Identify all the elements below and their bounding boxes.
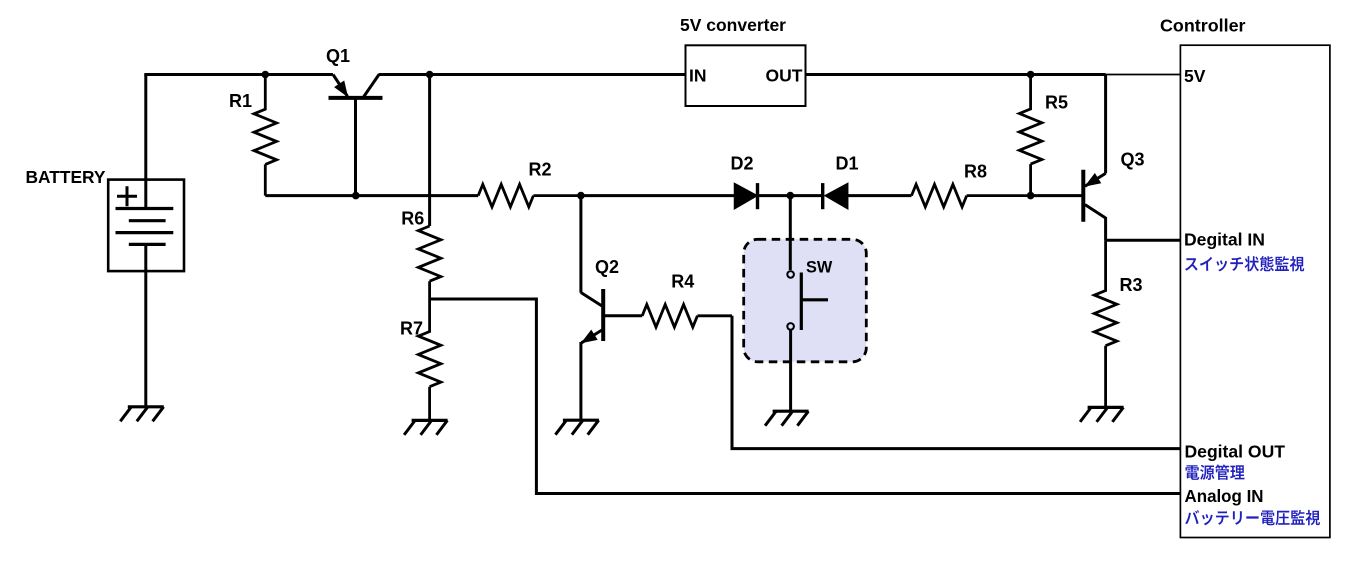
svg-text:R5: R5 (1045, 93, 1068, 113)
Controller box (1180, 45, 1330, 537)
node (R5 top) (1027, 71, 1035, 79)
node (top rail / divider drop) (426, 71, 434, 79)
svg-text:Degital OUT: Degital OUT (1185, 442, 1286, 462)
wire Q2 base to R4 (603, 314, 642, 317)
ground (SW) (765, 411, 809, 426)
wire top rail middle (Q1 collector to converter IN) (379, 73, 686, 76)
net note 電源管理 (1186, 465, 1245, 480)
wire D2 to D1 (758, 194, 823, 197)
wire battery top riser (144, 75, 147, 181)
wire Degital IN lead (1106, 239, 1181, 242)
net note スイッチ状態監視 (1185, 256, 1304, 271)
svg-text:R3: R3 (1120, 275, 1143, 295)
resistor R5 (1019, 75, 1042, 196)
transistor Q2 (581, 196, 603, 421)
ground (Q2) (555, 420, 599, 435)
node (Q1 base / base rail) (352, 192, 360, 200)
svg-text:5V converter: 5V converter (680, 15, 786, 35)
resistor R7 (418, 299, 441, 420)
svg-text:BATTERY: BATTERY (26, 167, 106, 187)
resistor R3 (1094, 240, 1117, 407)
resistor R6 (418, 226, 441, 299)
svg-text:IN: IN (689, 66, 707, 86)
svg-text:Q1: Q1 (326, 46, 350, 66)
ground (R7) (404, 420, 448, 435)
svg-text:Degital IN: Degital IN (1184, 230, 1265, 250)
node A (R1 top) (262, 71, 270, 79)
wire top rail left (battery to Q1 emitter) (144, 73, 333, 76)
battery BT1 (108, 180, 184, 272)
wire base rail y=195.6 from R1 to R2 (265, 194, 478, 197)
svg-text:R8: R8 (964, 162, 987, 182)
wire rail to D2 (581, 194, 735, 197)
svg-text:R1: R1 (229, 91, 252, 111)
svg-text:R2: R2 (529, 160, 552, 180)
wire divider drop (crosses base rail, no junction) (428, 75, 431, 227)
5V converter U1 (686, 45, 806, 106)
switch SW enclosure (744, 239, 867, 361)
resistor R2 (478, 184, 581, 207)
resistor R1 (254, 75, 277, 196)
svg-text:Q3: Q3 (1121, 150, 1145, 170)
svg-text:OUT: OUT (766, 66, 803, 86)
diode D1 (823, 183, 848, 209)
transistor Q1 (329, 75, 383, 196)
resistor R8 (912, 184, 1031, 207)
ground (battery) (120, 407, 164, 422)
wire 5V lead into controller (thin) (1106, 74, 1181, 76)
svg-text:D1: D1 (836, 154, 859, 174)
wire to Q3 base (1031, 194, 1084, 197)
svg-text:D2: D2 (731, 154, 754, 174)
node (R5 bottom / Q3 base) (1027, 192, 1035, 200)
transistor Q3 (1083, 75, 1105, 241)
wire divider tap to Analog IN (430, 299, 1181, 494)
svg-text:SW: SW (806, 259, 833, 277)
svg-text:5V: 5V (1184, 66, 1206, 86)
diode D2 (735, 183, 758, 209)
svg-text:R7: R7 (400, 318, 423, 338)
net note バッテリー電圧監視 (1185, 510, 1320, 525)
svg-text:R6: R6 (401, 208, 424, 228)
svg-text:Q2: Q2 (595, 257, 619, 277)
wire battery to ground (144, 244, 147, 406)
svg-text:Analog IN: Analog IN (1185, 486, 1264, 506)
svg-text:R4: R4 (671, 272, 694, 292)
ground (R3) (1080, 407, 1124, 422)
wire top rail right (converter OUT to Q3 emitter drop) (806, 73, 1106, 76)
wire R4 to Degital OUT (732, 316, 1180, 449)
switch SW (787, 196, 828, 412)
resistor R4 (642, 305, 732, 328)
node (Q2 collector tap) (577, 192, 585, 200)
wire D1 to R8 (848, 194, 912, 197)
svg-text:Controller: Controller (1160, 16, 1246, 36)
node (SW tap) (787, 192, 795, 200)
